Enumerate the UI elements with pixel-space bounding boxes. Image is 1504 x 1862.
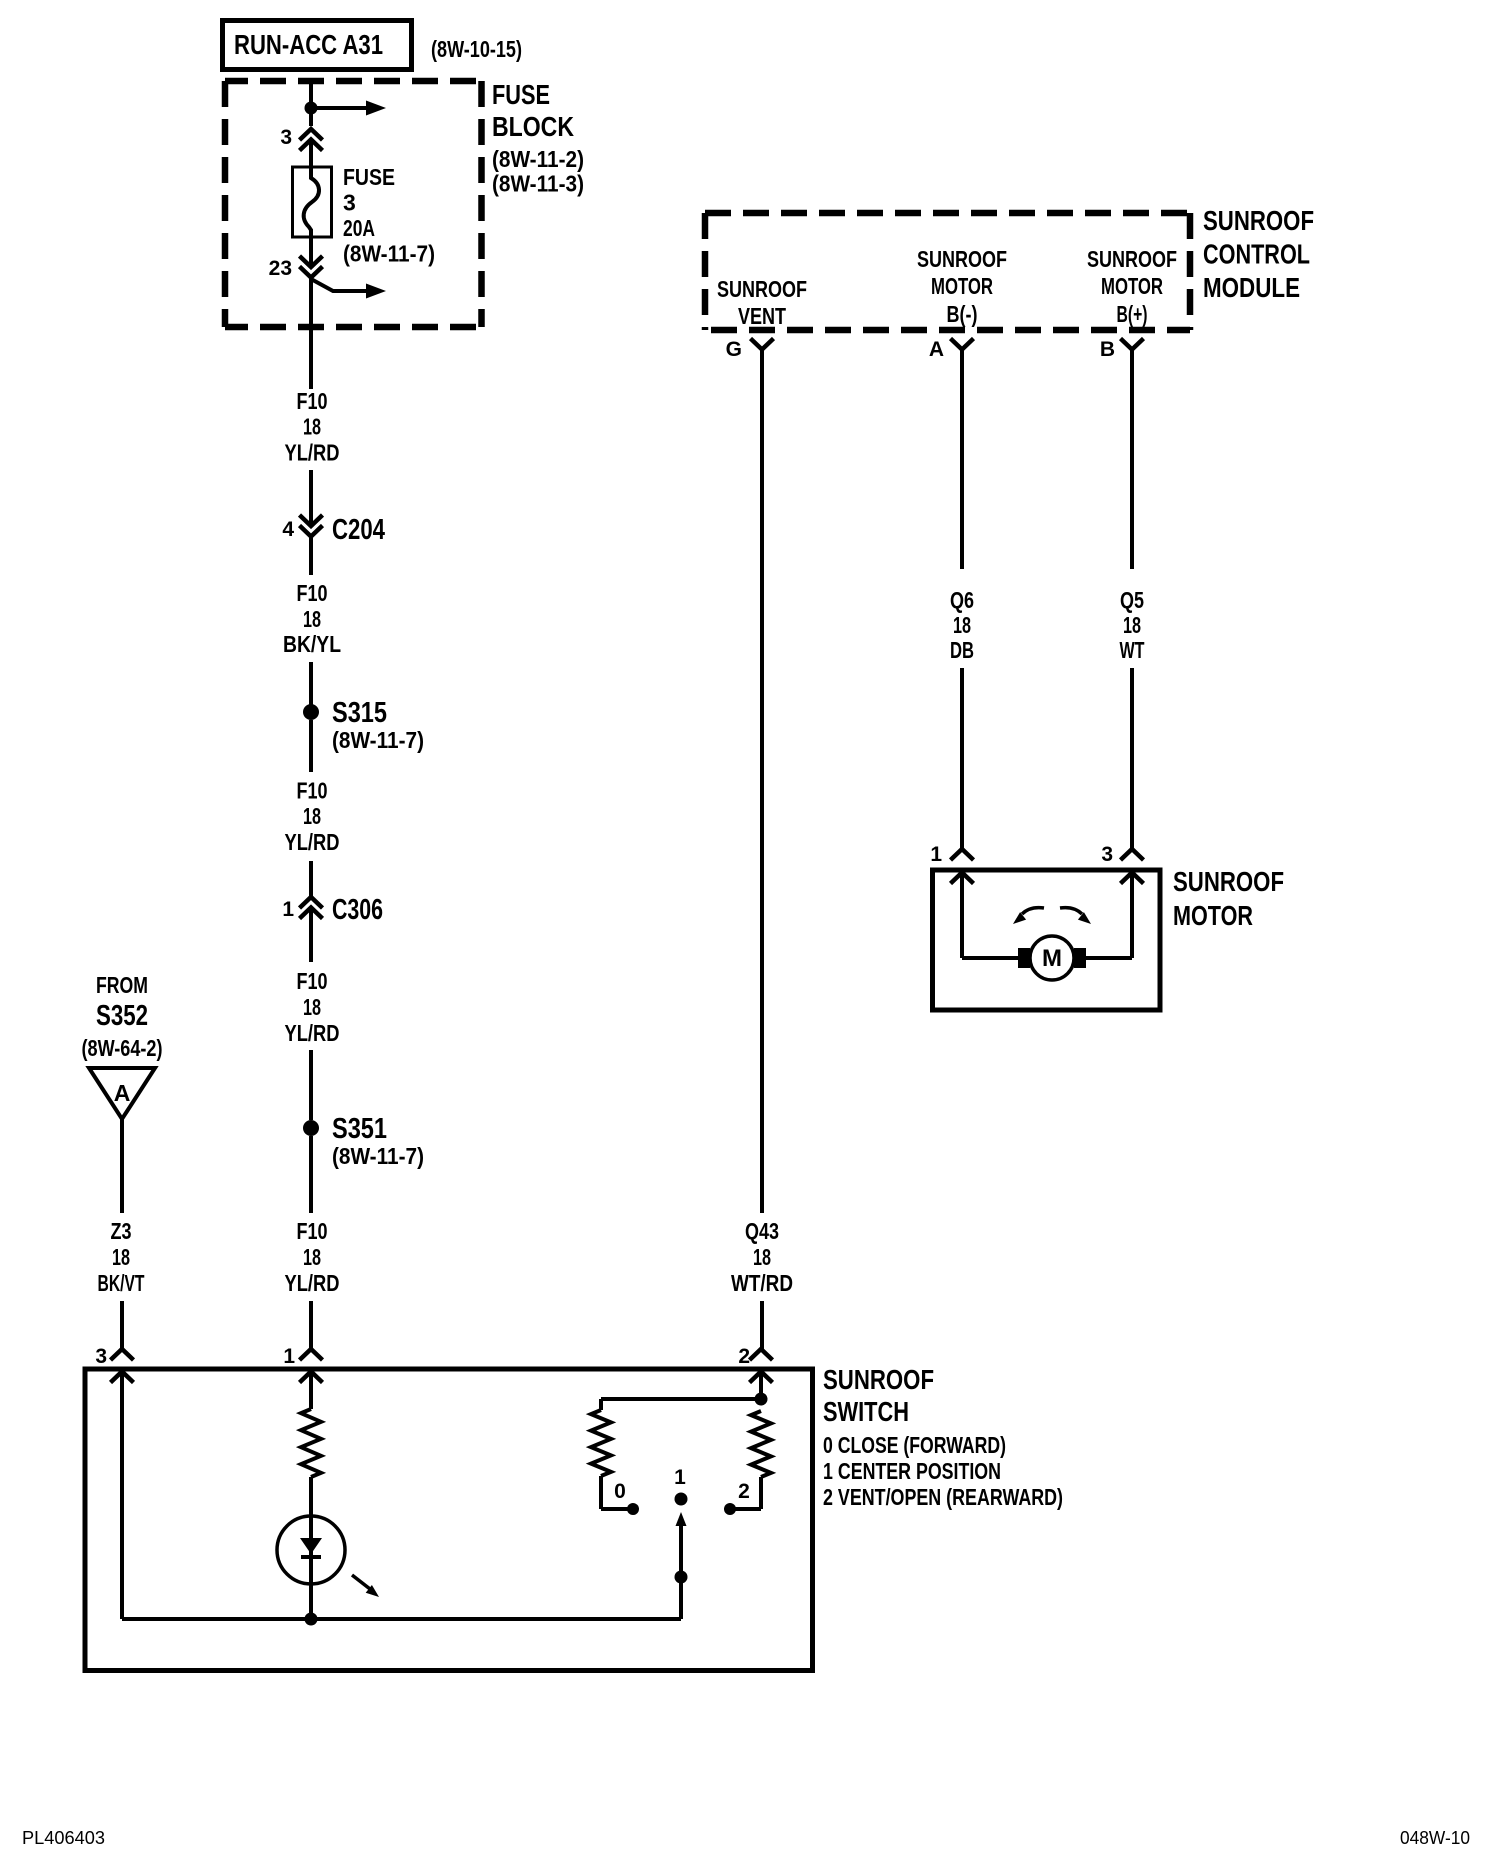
svg-text:FUSE: FUSE — [492, 79, 550, 110]
sunroof switch box — [85, 1369, 813, 1671]
svg-text:1: 1 — [283, 1345, 295, 1368]
svg-text:18: 18 — [303, 803, 321, 829]
resistor position 2 branch — [751, 1411, 771, 1477]
LED indicator lamp — [277, 1516, 345, 1584]
contact 1 (common) — [675, 1493, 688, 1506]
junction pin2 branches — [755, 1393, 768, 1406]
wire S315 down — [309, 720, 313, 772]
wire into C306 — [309, 861, 313, 897]
svg-text:FUSE: FUSE — [343, 164, 395, 190]
svg-text:CONTROL: CONTROL — [1203, 239, 1310, 270]
power feed box RUN-ACC A31 — [223, 21, 412, 70]
svg-text:1: 1 — [930, 843, 942, 866]
wire pin2 to left resistor — [601, 1397, 761, 1401]
switch pin 2 connector (female) — [750, 1349, 773, 1360]
svg-text:M: M — [1042, 945, 1062, 972]
wire Z3 from triangle — [120, 1119, 124, 1213]
wire C306 down — [309, 908, 313, 963]
svg-text:F10: F10 — [297, 580, 328, 606]
motor brush right — [1074, 948, 1086, 968]
resistor position 0 branch — [591, 1410, 611, 1476]
junction LED to bus — [305, 1613, 318, 1626]
svg-text:SUNROOF: SUNROOF — [1173, 866, 1284, 897]
svg-text:(8W-11-7): (8W-11-7) — [332, 1143, 424, 1169]
svg-text:1 CENTER POSITION: 1 CENTER POSITION — [823, 1458, 1001, 1484]
svg-text:2: 2 — [738, 1480, 750, 1503]
svg-text:(8W-11-7): (8W-11-7) — [343, 241, 435, 267]
motor brush left — [1018, 948, 1030, 968]
svg-text:4: 4 — [282, 518, 294, 541]
motor internal wire right — [1130, 873, 1134, 959]
svg-text:18: 18 — [303, 1244, 321, 1270]
switch pin 2 male terminal — [750, 1372, 773, 1383]
switch wiper arrow — [679, 1522, 683, 1577]
svg-text:SUNROOF: SUNROOF — [1087, 246, 1177, 272]
motor lead left — [962, 956, 1018, 960]
wire Q43 from module pin G to switch — [760, 350, 764, 1214]
svg-text:0: 0 — [614, 1480, 626, 1503]
wire to switch pin 3 — [120, 1301, 124, 1349]
switch internal wire from pin 3 — [120, 1372, 124, 1620]
svg-text:18: 18 — [753, 1244, 771, 1270]
svg-text:18: 18 — [1123, 612, 1141, 638]
svg-text:G: G — [726, 338, 742, 361]
svg-text:Q5: Q5 — [1120, 587, 1144, 613]
svg-text:(8W-11-2): (8W-11-2) — [492, 146, 584, 172]
switch pin 3 male terminal — [111, 1372, 134, 1383]
wire Q6 from module pin A — [960, 350, 964, 570]
fuse block dashed box — [225, 81, 482, 327]
wire S351 down — [309, 1136, 313, 1213]
wire to splice S315 — [309, 662, 313, 706]
switch internal bottom bus wire — [122, 1617, 681, 1621]
svg-text:MOTOR: MOTOR — [1173, 900, 1253, 931]
svg-text:18: 18 — [303, 994, 321, 1020]
svg-text:YL/RD: YL/RD — [285, 1270, 340, 1296]
svg-text:BK/VT: BK/VT — [98, 1270, 145, 1296]
splice S351 — [303, 1120, 319, 1136]
motor internal wire left — [960, 873, 964, 959]
svg-text:F10: F10 — [297, 778, 328, 804]
wire to switch pin 2 — [760, 1301, 764, 1349]
svg-text:3: 3 — [1101, 843, 1113, 866]
svg-text:B(-): B(-) — [947, 301, 978, 327]
junction wiper to bus — [675, 1571, 688, 1584]
svg-text:SUNROOF: SUNROOF — [917, 246, 1007, 272]
wire F10 18 YL/RD upper segment — [309, 278, 313, 390]
svg-text:18: 18 — [953, 612, 971, 638]
svg-text:1: 1 — [282, 898, 294, 921]
svg-text:20A: 20A — [343, 215, 375, 241]
svg-text:F10: F10 — [297, 968, 328, 994]
svg-text:048W-10: 048W-10 — [1400, 1828, 1470, 1848]
svg-text:F10: F10 — [297, 1218, 328, 1244]
svg-text:DB: DB — [950, 637, 974, 663]
svg-text:A: A — [114, 1080, 131, 1106]
svg-text:Q6: Q6 — [950, 587, 974, 613]
wire pin3 to fuse — [309, 140, 313, 171]
wire to contact 2 — [730, 1507, 761, 1511]
off-page connector triangle A — [89, 1068, 155, 1119]
motor pin 1 male terminal — [951, 873, 974, 884]
wire wiper to bottom bus — [679, 1577, 683, 1619]
switch pin 1 male terminal — [300, 1372, 323, 1383]
svg-text:2: 2 — [738, 1345, 750, 1368]
module pin A connector — [951, 339, 974, 350]
svg-text:SUNROOF: SUNROOF — [1203, 205, 1314, 236]
svg-text:3: 3 — [95, 1345, 107, 1368]
svg-text:0 CLOSE (FORWARD): 0 CLOSE (FORWARD) — [823, 1432, 1006, 1458]
module pin G connector — [751, 339, 774, 350]
svg-text:MOTOR: MOTOR — [1101, 273, 1163, 299]
wire into C204 — [309, 470, 313, 526]
svg-text:SUNROOF: SUNROOF — [823, 1364, 934, 1395]
connector C204 — [300, 515, 323, 526]
wire Q6 to motor pin 1 — [960, 668, 964, 849]
wire to switch pin 1 — [309, 1301, 313, 1349]
svg-text:18: 18 — [303, 414, 321, 440]
svg-text:2 VENT/OPEN (REARWARD): 2 VENT/OPEN (REARWARD) — [823, 1484, 1063, 1510]
svg-text:(8W-10-15): (8W-10-15) — [431, 36, 522, 62]
splice S315 — [303, 704, 319, 720]
svg-text:SWITCH: SWITCH — [823, 1396, 909, 1427]
svg-text:YL/RD: YL/RD — [285, 1020, 340, 1046]
contact 2 — [724, 1503, 736, 1515]
svg-text:S351: S351 — [332, 1113, 387, 1145]
wire resistor to LED — [309, 1477, 313, 1516]
wire left resistor down — [599, 1476, 603, 1509]
sunroof motor box — [933, 870, 1161, 1010]
svg-text:C204: C204 — [332, 514, 385, 546]
LED emission arrow — [352, 1575, 370, 1589]
wire C204 to label — [309, 538, 313, 576]
resistor in LED branch — [301, 1409, 321, 1477]
branch arrow to other circuits — [311, 106, 366, 110]
junction node feed splice — [305, 102, 318, 115]
svg-text:Q43: Q43 — [745, 1218, 779, 1244]
svg-text:SUNROOF: SUNROOF — [717, 276, 807, 302]
wire pin2 down to junction — [759, 1372, 763, 1406]
svg-text:BLOCK: BLOCK — [492, 111, 574, 142]
svg-text:A: A — [929, 338, 944, 361]
svg-text:23: 23 — [269, 257, 292, 280]
svg-text:BK/YL: BK/YL — [283, 631, 341, 657]
svg-text:Z3: Z3 — [111, 1218, 132, 1244]
branch arrow from pin 23 to other circuits — [311, 279, 366, 291]
wire pin1 to resistor — [309, 1372, 313, 1410]
connector C306 — [300, 897, 323, 908]
sunroof control module dashed box — [705, 213, 1190, 330]
motor pin 3 male terminal — [1121, 873, 1144, 884]
svg-text:(8W-11-3): (8W-11-3) — [492, 171, 584, 197]
contact 0 — [627, 1503, 639, 1515]
motor pin 1 connector (female) — [951, 849, 974, 860]
svg-text:F10: F10 — [297, 388, 328, 414]
module pin B connector — [1121, 339, 1144, 350]
svg-text:(8W-11-7): (8W-11-7) — [332, 727, 424, 753]
svg-text:FROM: FROM — [96, 972, 148, 998]
svg-text:WT/RD: WT/RD — [731, 1270, 793, 1296]
svg-text:YL/RD: YL/RD — [285, 440, 340, 466]
svg-text:C306: C306 — [332, 894, 383, 926]
svg-text:MODULE: MODULE — [1203, 272, 1300, 303]
wire Q5 to motor pin 3 — [1130, 668, 1134, 849]
svg-text:18: 18 — [112, 1244, 130, 1270]
wire from RUN-ACC A31 feed into fuse block — [309, 81, 313, 126]
svg-text:RUN-ACC A31: RUN-ACC A31 — [234, 29, 383, 60]
motor M symbol — [1030, 936, 1074, 980]
motor pin 3 connector (female) — [1121, 849, 1144, 860]
motor rotation arrow right — [1060, 908, 1082, 914]
motor rotation arrow left — [1022, 908, 1044, 914]
svg-text:WT: WT — [1120, 637, 1145, 663]
fuse block pin 23 connector — [300, 256, 323, 267]
svg-text:YL/RD: YL/RD — [285, 829, 340, 855]
svg-text:1: 1 — [674, 1466, 686, 1489]
svg-text:S352: S352 — [96, 1000, 148, 1032]
wire right resistor down — [759, 1477, 763, 1509]
fuse 3 20A — [293, 167, 332, 237]
wire fuse to pin 23 — [309, 237, 313, 267]
svg-text:18: 18 — [303, 606, 321, 632]
wire to contact 0 — [601, 1507, 633, 1511]
svg-text:PL406403: PL406403 — [22, 1828, 105, 1848]
svg-text:(8W-64-2): (8W-64-2) — [82, 1035, 163, 1061]
svg-text:B: B — [1100, 338, 1115, 361]
motor lead right — [1086, 956, 1132, 960]
svg-text:S315: S315 — [332, 697, 387, 729]
svg-text:MOTOR: MOTOR — [931, 273, 993, 299]
svg-text:VENT: VENT — [738, 303, 786, 329]
svg-text:3: 3 — [280, 126, 292, 149]
wire Q5 from module pin B — [1130, 350, 1134, 570]
switch pin 1 connector (female) — [300, 1349, 323, 1360]
fuse block pin 3 connector — [300, 129, 323, 140]
svg-text:B(+): B(+) — [1117, 301, 1148, 327]
switch pin 3 connector (female) — [111, 1349, 134, 1360]
svg-text:3: 3 — [343, 190, 356, 216]
wire to splice S351 — [309, 1050, 313, 1120]
